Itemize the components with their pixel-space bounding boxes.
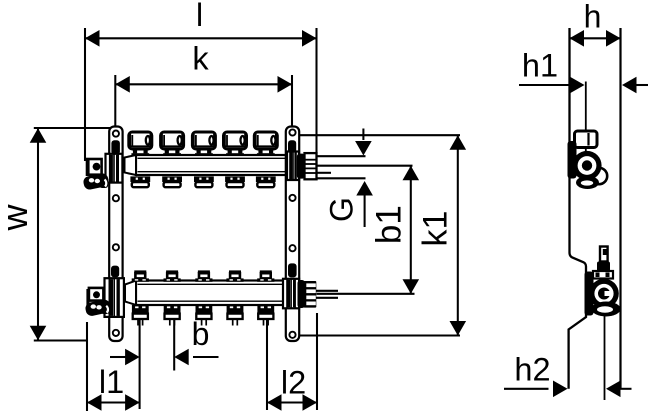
- valve cap 5 top bar: [254, 132, 277, 156]
- side top valve body ring: [572, 151, 601, 180]
- leader G arrow: [356, 181, 373, 227]
- side bottom valve cap: [597, 262, 610, 272]
- side top valve centerline: [585, 82, 587, 156]
- dimension h1 label: [522, 48, 558, 84]
- side bottom valve flange: [593, 271, 613, 279]
- svg-text:h2: h2: [514, 352, 550, 388]
- dimension h line: [570, 30, 621, 47]
- bracket slot top-right: [288, 140, 296, 154]
- reference line k1 top: [297, 134, 461, 136]
- reference line w bottom: [34, 339, 88, 341]
- outlet fitting 2 top bar: [162, 176, 182, 187]
- union nut top-right: [305, 153, 317, 179]
- top fitting 1 bottom bar: [132, 270, 149, 281]
- svg-text:k1: k1: [417, 211, 455, 247]
- svg-text:G: G: [324, 197, 360, 222]
- dimension h label: [584, 0, 602, 35]
- hub bottom-right: [298, 280, 306, 308]
- manifold bar bottom: [136, 281, 287, 306]
- extension line l2 right: [316, 313, 318, 410]
- side bottom valve body ring: [589, 279, 619, 309]
- top fitting 5 bottom bar: [257, 270, 274, 281]
- dimension h2 arrows: [504, 381, 632, 398]
- valve cap 3 top bar: [192, 132, 215, 156]
- outlet fitting 3 top bar: [194, 176, 214, 187]
- extension line l1 left: [86, 322, 88, 411]
- extension line l2 left: [266, 308, 268, 410]
- hub top-right: [297, 154, 306, 179]
- dimension l1 label: [99, 364, 124, 400]
- dimension l1 line: [87, 394, 140, 411]
- dimension h2 label: [514, 352, 550, 388]
- dimension k label: [192, 41, 209, 77]
- valve cap 1 top bar: [129, 132, 152, 156]
- extension line l right: [315, 28, 317, 153]
- mounting bracket left: [109, 127, 122, 342]
- top fitting 3 bottom bar: [195, 270, 212, 281]
- side bottom valve lower flange: [592, 302, 621, 317]
- dimension l2 line: [267, 394, 317, 411]
- svg-text:w: w: [0, 203, 35, 231]
- dimension w line: [30, 128, 47, 340]
- extension line b right: [173, 317, 175, 371]
- mounting bracket right: [286, 127, 299, 342]
- valve cap 2 top bar: [161, 132, 184, 156]
- side top valve lower flange: [576, 176, 599, 189]
- end valve top-left port: [93, 163, 101, 171]
- reference line stub bottom: [317, 177, 366, 179]
- dimension b1 line: [403, 166, 420, 294]
- arrow to stub top: [355, 129, 372, 156]
- side bottom valve clamp: [585, 272, 594, 316]
- clamp block top-left: [106, 154, 123, 183]
- manifold bar top: [136, 155, 287, 175]
- top fitting 4 bottom bar: [226, 270, 243, 281]
- label G: [324, 197, 360, 222]
- end valve bottom-left body: [86, 288, 103, 309]
- top fitting 2 bottom bar: [164, 270, 181, 281]
- clamp block bottom-right: [283, 279, 299, 309]
- reference line w top: [34, 127, 110, 129]
- svg-text:b1: b1: [369, 205, 408, 244]
- side top valve handle: [575, 131, 598, 148]
- reference line stub br2: [316, 297, 339, 299]
- extension line k right: [291, 75, 293, 127]
- outlet fitting 1 bottom bar: [132, 305, 149, 326]
- union nut bottom-right: [304, 281, 317, 308]
- reference line stub short: [317, 172, 332, 174]
- extension line l1-b shared: [139, 315, 141, 409]
- side bottom valve pin: [600, 247, 608, 262]
- clamp block top-right: [287, 152, 299, 181]
- side top valve nut circle: [591, 168, 607, 184]
- dimension k1 line: [450, 135, 467, 335]
- dimension l2 label: [281, 365, 306, 401]
- outlet fitting 4 top bar: [225, 176, 245, 187]
- bracket slot bottom-left: [111, 266, 119, 278]
- valve cap 4 top bar: [224, 132, 247, 156]
- cone bottom-left: [125, 281, 136, 306]
- reference line b1 bottom: [317, 293, 415, 295]
- extension line l left: [84, 28, 86, 161]
- outlet fitting 2 bottom bar: [164, 305, 181, 326]
- bracket slot bottom-right: [288, 263, 297, 277]
- svg-text:l: l: [196, 0, 203, 33]
- dimension b label: [192, 316, 210, 352]
- dimension k1 label: [417, 211, 455, 247]
- dimension l label: [196, 0, 203, 33]
- side bracket front profile: [569, 28, 586, 389]
- dimension l line: [85, 30, 317, 47]
- dimension b1 label: [369, 205, 408, 244]
- outlet fitting 5 bottom bar: [257, 305, 274, 326]
- bracket slot top-left: [111, 140, 120, 154]
- side bottom valve centerline: [604, 316, 606, 400]
- cone top-left: [125, 155, 137, 175]
- end valve bottom-left port: [93, 291, 100, 298]
- clamp block bottom-left: [105, 278, 124, 317]
- svg-text:k: k: [192, 41, 209, 77]
- outlet fitting 3 bottom bar: [196, 305, 213, 326]
- reference line stub top: [317, 155, 366, 157]
- dimension k line: [115, 76, 292, 93]
- reference line stub br1: [316, 290, 339, 292]
- extension line k left: [114, 75, 116, 127]
- end valve top-left handle: [82, 172, 109, 190]
- dimension w label: [0, 203, 35, 231]
- end valve top-left body: [86, 159, 101, 176]
- reference line b1 top: [317, 165, 413, 167]
- outlet fitting 1 top bar: [130, 176, 150, 187]
- dimension h1 arrows: [519, 77, 648, 94]
- outlet fitting 5 top bar: [256, 176, 276, 187]
- side top valve clamp: [568, 141, 577, 179]
- svg-text:h: h: [584, 0, 602, 35]
- reference line k1 bottom: [297, 334, 460, 336]
- svg-text:l1: l1: [99, 364, 124, 400]
- end valve bottom-left handle: [84, 299, 111, 317]
- outlet fitting 4 bottom bar: [227, 305, 244, 326]
- svg-text:h1: h1: [522, 48, 558, 84]
- svg-text:l2: l2: [281, 365, 306, 401]
- side wall line: [619, 28, 621, 389]
- dimension b arrows: [110, 349, 219, 366]
